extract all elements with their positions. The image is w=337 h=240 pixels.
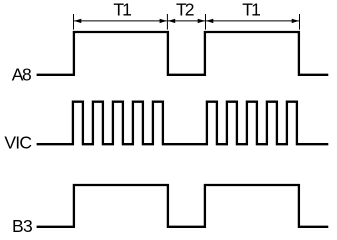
svg-text:T1: T1 (113, 0, 131, 19)
label T1 (first period) (113, 0, 131, 19)
dimension line T2 span (168, 20, 205, 22)
signal label A8 (12, 64, 31, 84)
dimension line T1 (second span) (206, 20, 299, 22)
svg-text:T2: T2 (176, 0, 194, 19)
arrowhead left of second T1 (206, 19, 213, 23)
extension line at A8 first rising edge (73, 14, 75, 30)
waveform VIC clock bursts (37, 102, 329, 145)
label T2 (176, 0, 194, 19)
dimension line T1 (first span) (74, 20, 167, 22)
arrowhead right of second T1 (292, 19, 299, 23)
extension line at A8 first falling edge (166, 14, 168, 30)
svg-text:A8: A8 (12, 64, 31, 84)
signal label B3 (12, 216, 32, 236)
arrowhead right of first T1 (160, 19, 167, 23)
signal label VIC (4, 133, 31, 153)
arrowhead left of first T1 (74, 19, 81, 23)
svg-text:VIC: VIC (4, 133, 31, 153)
arrowhead left of T2 (168, 19, 175, 23)
extension line at A8 second rising edge (205, 14, 207, 30)
waveform B3 (37, 185, 329, 227)
arrowhead right of T2 (198, 19, 205, 23)
label T1 (second period) (242, 0, 260, 19)
extension line at A8 second falling edge (299, 14, 301, 30)
waveform A8 (37, 32, 329, 75)
svg-text:T1: T1 (242, 0, 260, 19)
svg-text:B3: B3 (12, 216, 32, 236)
